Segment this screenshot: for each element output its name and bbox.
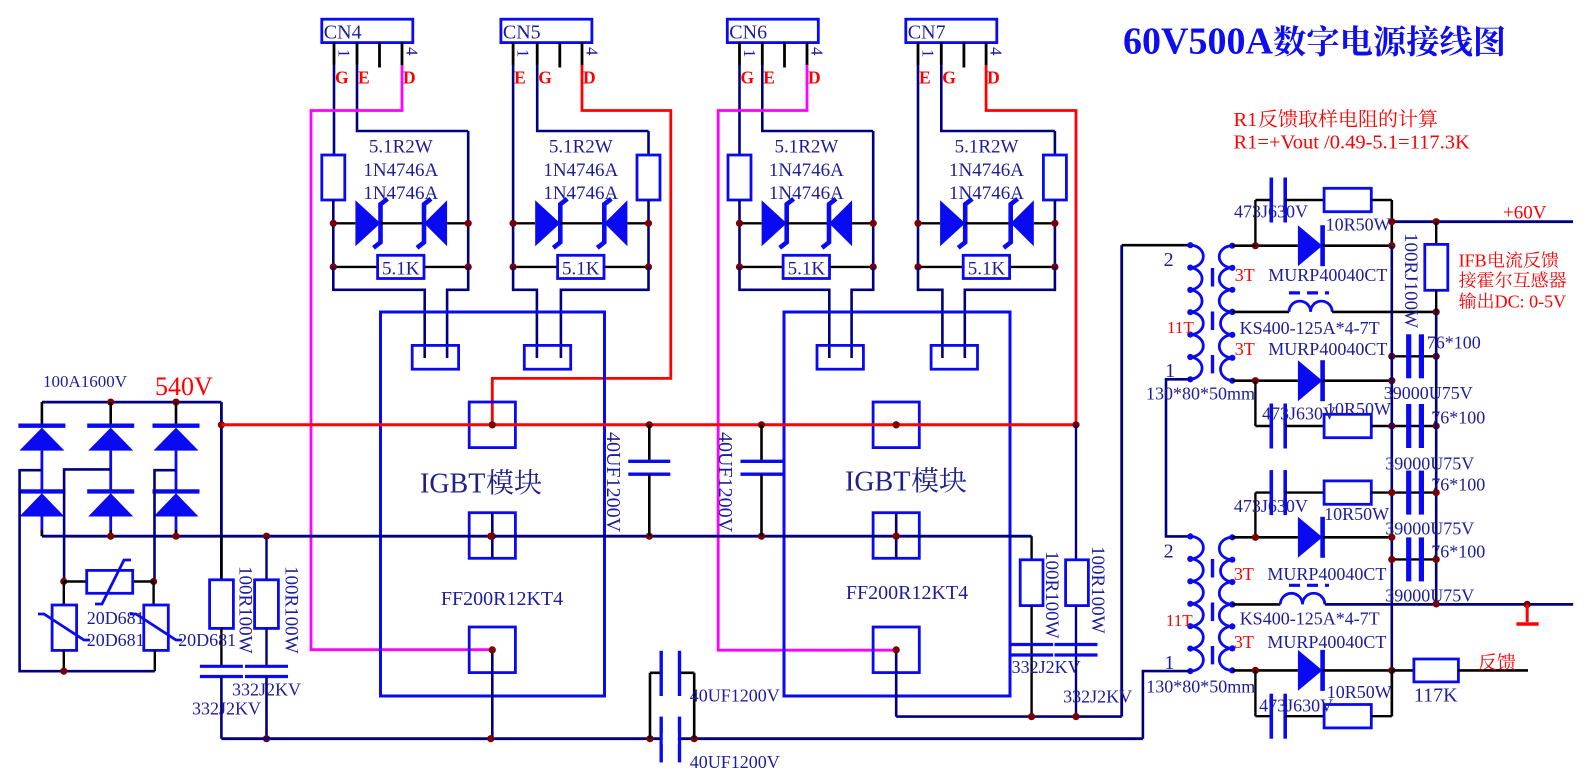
svg-text:D: D: [987, 68, 1000, 88]
svg-text:332J2KV: 332J2KV: [192, 699, 261, 719]
svg-text:FF200R12KT4: FF200R12KT4: [846, 582, 968, 604]
svg-text:3T: 3T: [1235, 265, 1255, 285]
svg-text:CN4: CN4: [324, 22, 362, 44]
svg-text:1N4746A: 1N4746A: [769, 183, 844, 204]
svg-text:CN5: CN5: [503, 22, 541, 44]
svg-text:39000U75V: 39000U75V: [1385, 454, 1474, 474]
svg-text:1N4746A: 1N4746A: [949, 160, 1024, 181]
svg-text:473J630V: 473J630V: [1262, 404, 1336, 424]
svg-text:473J630V: 473J630V: [1234, 202, 1308, 222]
svg-text:1: 1: [335, 49, 354, 58]
svg-text:KS400-125A*4-7T: KS400-125A*4-7T: [1240, 609, 1380, 629]
svg-text:100RJ100W: 100RJ100W: [1400, 233, 1421, 328]
svg-text:40UF1200V: 40UF1200V: [690, 686, 780, 706]
svg-text:1: 1: [514, 49, 533, 58]
svg-text:KS400-125A*4-7T: KS400-125A*4-7T: [1240, 318, 1380, 338]
svg-text:1N4746A: 1N4746A: [363, 160, 438, 181]
svg-text:10R50W: 10R50W: [1326, 399, 1391, 419]
svg-text:100R100W: 100R100W: [235, 566, 256, 654]
svg-text:76*100: 76*100: [1431, 408, 1485, 428]
svg-text:39000U75V: 39000U75V: [1385, 586, 1474, 606]
svg-text:MURP40040CT: MURP40040CT: [1268, 265, 1387, 285]
svg-text:2: 2: [1164, 541, 1174, 563]
svg-text:130*80*50mm: 130*80*50mm: [1146, 384, 1255, 404]
svg-text:473J630V: 473J630V: [1259, 696, 1333, 716]
svg-text:332J2KV: 332J2KV: [1063, 687, 1132, 707]
svg-text:5.1R2W: 5.1R2W: [955, 137, 1019, 158]
svg-text:E: E: [358, 68, 370, 88]
svg-text:40UF1200V: 40UF1200V: [690, 752, 780, 772]
svg-text:MURP40040CT: MURP40040CT: [1267, 632, 1386, 652]
svg-text:1N4746A: 1N4746A: [543, 183, 618, 204]
svg-text:1: 1: [1165, 360, 1175, 382]
svg-text:1: 1: [919, 49, 938, 58]
svg-text:332J2KV: 332J2KV: [232, 680, 301, 700]
svg-text:D: D: [403, 68, 416, 88]
svg-text:CN7: CN7: [908, 22, 946, 44]
svg-text:G: G: [741, 68, 755, 88]
svg-text:76*100: 76*100: [1427, 333, 1481, 353]
svg-text:IFB: IFB: [1459, 251, 1487, 271]
svg-text:4: 4: [403, 47, 422, 56]
svg-text:MURP40040CT: MURP40040CT: [1267, 564, 1386, 584]
svg-text:E: E: [919, 68, 931, 88]
svg-text:39000U75V: 39000U75V: [1385, 519, 1474, 539]
svg-text:1N4746A: 1N4746A: [363, 183, 438, 204]
svg-text:1N4746A: 1N4746A: [949, 183, 1024, 204]
svg-text:76*100: 76*100: [1431, 542, 1485, 562]
svg-text:100R100W: 100R100W: [281, 566, 302, 654]
svg-text:100A1600V: 100A1600V: [43, 372, 128, 391]
svg-text:3T: 3T: [1234, 632, 1254, 652]
svg-text:11T: 11T: [1166, 611, 1193, 630]
svg-text:4: 4: [808, 47, 827, 56]
svg-text:1: 1: [1164, 652, 1174, 674]
svg-text:60V500A: 60V500A: [1123, 21, 1273, 63]
svg-text:1N4746A: 1N4746A: [769, 160, 844, 181]
svg-text:R1: R1: [1234, 109, 1258, 131]
svg-text:40UF1200V: 40UF1200V: [602, 432, 624, 533]
svg-text:3T: 3T: [1234, 564, 1254, 584]
svg-text:5.1R2W: 5.1R2W: [774, 137, 838, 158]
svg-text:FF200R12KT4: FF200R12KT4: [441, 588, 563, 610]
svg-text:+60V: +60V: [1503, 203, 1547, 224]
svg-text:1: 1: [740, 49, 759, 58]
svg-text:100R100W: 100R100W: [1087, 546, 1108, 634]
svg-text:332J2KV: 332J2KV: [1012, 657, 1081, 677]
svg-text:4: 4: [987, 47, 1006, 56]
svg-text:540V: 540V: [155, 372, 213, 401]
svg-text:76*100: 76*100: [1431, 475, 1485, 495]
svg-text:1N4746A: 1N4746A: [543, 160, 618, 181]
svg-text:473J630V: 473J630V: [1234, 496, 1308, 516]
svg-text:IGBT: IGBT: [845, 467, 910, 498]
svg-text:E: E: [763, 68, 775, 88]
svg-text:G: G: [335, 68, 349, 88]
svg-text:117K: 117K: [1414, 685, 1458, 707]
svg-text:10R50W: 10R50W: [1324, 504, 1389, 524]
svg-text:20D681: 20D681: [87, 608, 145, 628]
svg-text:5.1K: 5.1K: [382, 259, 420, 280]
svg-text:E: E: [514, 68, 526, 88]
svg-text:G: G: [538, 68, 552, 88]
svg-text:D: D: [808, 68, 821, 88]
svg-text:3T: 3T: [1235, 339, 1255, 359]
svg-text:R1=+Vout /0.49-5.1=117.3K: R1=+Vout /0.49-5.1=117.3K: [1234, 132, 1470, 154]
svg-text:DC: 0-5V: DC: 0-5V: [1495, 292, 1567, 312]
svg-text:G: G: [942, 68, 956, 88]
svg-text:40UF1200V: 40UF1200V: [714, 432, 736, 533]
svg-text:5.1K: 5.1K: [788, 259, 826, 280]
svg-text:130*80*50mm: 130*80*50mm: [1146, 677, 1255, 697]
svg-text:11T: 11T: [1167, 318, 1194, 337]
svg-text:39000U75V: 39000U75V: [1384, 383, 1473, 403]
svg-text:10R50W: 10R50W: [1327, 682, 1392, 702]
svg-text:4: 4: [583, 47, 602, 56]
svg-text:MURP40040CT: MURP40040CT: [1268, 339, 1387, 359]
svg-text:5.1R2W: 5.1R2W: [369, 137, 433, 158]
svg-text:20D681: 20D681: [87, 630, 145, 650]
svg-text:5.1K: 5.1K: [562, 259, 600, 280]
svg-text:100R100W: 100R100W: [1041, 551, 1062, 639]
svg-text:20D681: 20D681: [178, 630, 236, 650]
svg-text:2: 2: [1164, 249, 1174, 271]
svg-text:5.1K: 5.1K: [968, 259, 1006, 280]
svg-text:5.1R2W: 5.1R2W: [549, 137, 613, 158]
svg-text:IGBT: IGBT: [420, 469, 485, 500]
svg-text:CN6: CN6: [729, 22, 767, 44]
svg-text:D: D: [583, 68, 596, 88]
svg-text:10R50W: 10R50W: [1326, 215, 1391, 235]
